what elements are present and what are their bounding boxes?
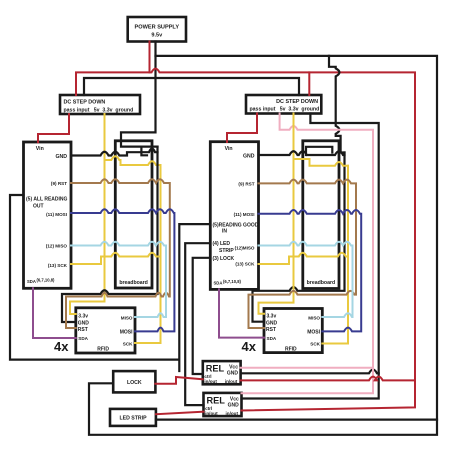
svg-text:MOSI: MOSI xyxy=(120,330,133,336)
led strip xyxy=(110,409,156,426)
rfid RFID1 xyxy=(76,308,135,353)
svg-text:4x: 4x xyxy=(54,339,69,354)
svg-text:SCK: SCK xyxy=(310,342,320,347)
svg-text:GND: GND xyxy=(78,320,90,326)
svg-text:breadboard: breadboard xyxy=(307,280,336,286)
wire: black feed to DC step-down inputs (top rail) xyxy=(84,78,299,95)
svg-text:(12)MISO: (12)MISO xyxy=(235,245,255,250)
svg-text:RST: RST xyxy=(78,327,88,333)
relay REL2 xyxy=(204,393,242,416)
wire: yellow column right of breadboard 1 to RFID 1 SCK xyxy=(135,165,161,343)
wire: jumper step inside breadboard 1 top xyxy=(141,147,147,156)
wire: arduino 2 pin 4 LED STRIP to relay 2 ctrl xyxy=(185,243,210,405)
wire: arduino 2 RST brown to RFID 2 RST xyxy=(249,180,357,328)
svg-text:MISO: MISO xyxy=(121,315,133,320)
wire: jumper step inside breadboard 2 top xyxy=(306,147,332,155)
svg-text:4x: 4x xyxy=(242,339,257,354)
svg-text:in/out: in/out xyxy=(204,379,217,384)
svg-text:DC STEP DOWN: DC STEP DOWN xyxy=(64,100,106,106)
arduino A2 xyxy=(210,142,258,290)
breadboard BB2 xyxy=(303,141,339,289)
svg-text:DC STEP DOWN: DC STEP DOWN xyxy=(276,99,318,105)
breadboard BB1 xyxy=(115,141,152,288)
svg-text:(4) LED: (4) LED xyxy=(213,241,231,247)
svg-text:GND: GND xyxy=(55,154,67,160)
dc step down U1 xyxy=(60,95,140,114)
svg-text:MISO: MISO xyxy=(308,315,320,320)
svg-text:LOCK: LOCK xyxy=(127,380,142,386)
wire: yellow 3.3v branch across breadboard 1 xyxy=(105,156,161,165)
svg-text:(13) SCK: (13) SCK xyxy=(48,263,68,268)
svg-text:(6,7,10,8): (6,7,10,8) xyxy=(37,278,56,283)
wire: black branch from top bus down to breadboard 2 ground column xyxy=(329,56,345,153)
wire: yellow 3.3v DC2 down to RFID 2 3.3v xyxy=(259,114,294,314)
relay REL1 xyxy=(203,361,241,384)
wire: DC step-down 2 5v to arduino 2 Vin xyxy=(227,114,257,143)
wire: relay 1 GND to ground column xyxy=(241,370,379,374)
wire: arduino 2 GND across breadboard 2 xyxy=(259,151,345,155)
wire: power supply red lead xyxy=(149,42,151,73)
svg-text:GND: GND xyxy=(243,154,255,160)
svg-text:GND: GND xyxy=(266,320,278,326)
svg-text:3.3v: 3.3v xyxy=(78,313,88,319)
wire: yellow 3.3v DC1 down to RFID 1 3.3v xyxy=(70,114,105,314)
svg-text:(13) SCK: (13) SCK xyxy=(235,262,255,267)
svg-text:SDA: SDA xyxy=(214,280,223,285)
wire: arduino 2 MISO light blue to RFID 2 MISO xyxy=(259,242,353,317)
svg-text:(11) MOSI: (11) MOSI xyxy=(234,212,255,217)
svg-text:(12) MISO: (12) MISO xyxy=(46,244,68,249)
wire: arduino 2 pin 3 LOCK to relay 1 ctrl xyxy=(193,258,211,374)
wire: arduino 2 SCK yellow into breadboard column xyxy=(259,253,349,264)
wire: arduino 2 SDA purple to RFID 2 SDA xyxy=(219,289,264,337)
wire: relay 1 Vcc pink branch xyxy=(241,367,373,369)
wire: arduino 1 SDA purple to RFID 1 SDA xyxy=(33,288,76,338)
wire: arduino 1 pin 5 ALL READING OUT to arduino 2 READING GOOD IN xyxy=(10,195,210,371)
wire: ground bus from power supply right side to bottom xyxy=(89,56,437,435)
wire: yellow column right of breadboard 2 to RFID 2 SCK xyxy=(322,166,348,344)
wire: led strip red to relay 2 in/out xyxy=(156,412,204,415)
svg-text:in/out: in/out xyxy=(205,411,218,416)
svg-text:pass input 5v 3.3v ground: pass input 5v 3.3v ground xyxy=(64,108,134,114)
wire: power supply black lead down to breadboard 1 jumper xyxy=(121,42,158,147)
wire: arduino 1 GND across breadboard 1 xyxy=(71,148,158,155)
svg-text:(9) RST: (9) RST xyxy=(238,181,254,186)
svg-text:RFID: RFID xyxy=(285,346,297,352)
wire: red branch down to DC step-down 2 input xyxy=(308,72,310,95)
svg-text:RFID: RFID xyxy=(97,346,109,352)
wire: led strip black ground return xyxy=(156,419,437,421)
svg-text:IN: IN xyxy=(222,228,227,234)
svg-text:SDA: SDA xyxy=(78,336,88,341)
wire: arduino 1 MISO light blue to RFID 1 MISO xyxy=(71,242,166,317)
svg-text:9.5v: 9.5v xyxy=(151,33,163,39)
svg-text:STRIP: STRIP xyxy=(219,248,234,254)
svg-text:pass input 5v 3.3v ground: pass input 5v 3.3v ground xyxy=(250,107,320,113)
wire: pink 5v from DC step-down 2 to relay Vcc pins xyxy=(242,114,374,394)
svg-text:(5)READING GOOD: (5)READING GOOD xyxy=(213,222,259,228)
svg-text:(3) LOCK: (3) LOCK xyxy=(213,256,235,262)
svg-text:SCK: SCK xyxy=(123,342,133,347)
wire: lock red to relay 1 in/out xyxy=(155,377,202,384)
wire: ground column right of breadboard 2 to RFID 2 GND xyxy=(253,153,345,322)
wire: arduino 1 MOSI navy to RFID 1 MOSI xyxy=(71,209,174,331)
svg-text:in/out: in/out xyxy=(225,379,238,384)
svg-text:(5) ALL READING: (5) ALL READING xyxy=(26,197,68,203)
svg-text:GND: GND xyxy=(228,403,240,409)
svg-text:Vin: Vin xyxy=(225,146,233,152)
svg-text:SDA: SDA xyxy=(27,279,36,284)
wire: yellow 3.3v branch across breadboard 2 xyxy=(294,159,349,166)
power supply PSU 9.5v xyxy=(128,17,186,42)
svg-text:in/out: in/out xyxy=(226,411,239,416)
wire: arduino 1 SCK yellow into breadboard column xyxy=(71,253,161,264)
wire: DC step-down 2 ground output to relay GND column xyxy=(242,114,379,399)
wire: breadboard 1 ground column down to RFID 1 GND xyxy=(62,147,158,322)
dc step down U2 xyxy=(246,95,321,114)
wire: arduino 2 MOSI navy to RFID 2 MOSI xyxy=(259,210,362,331)
svg-text:LED STRIP: LED STRIP xyxy=(119,416,147,422)
arduino A1 xyxy=(24,142,72,288)
svg-text:OUT: OUT xyxy=(33,204,44,210)
svg-text:REL: REL xyxy=(206,364,225,374)
svg-text:3.3v: 3.3v xyxy=(267,313,277,319)
lock LOCK xyxy=(113,371,155,392)
wire: red 9.5v bus xyxy=(76,69,415,411)
svg-text:breadboard: breadboard xyxy=(119,280,148,286)
svg-text:(11) MOSI: (11) MOSI xyxy=(46,212,67,217)
wire: arduino 1 RST brown to RFID 1 RST xyxy=(66,179,170,328)
wire: relay 1 in/out red to 9.5v return xyxy=(241,377,415,381)
svg-text:(9) RST: (9) RST xyxy=(51,181,67,186)
svg-text:Vin: Vin xyxy=(36,146,44,152)
svg-text:SDA: SDA xyxy=(267,336,277,341)
svg-text:RST: RST xyxy=(266,327,276,333)
svg-text:(6,7,10,8): (6,7,10,8) xyxy=(223,279,242,284)
svg-text:MOSI: MOSI xyxy=(307,330,320,336)
svg-text:GND: GND xyxy=(227,371,239,377)
svg-text:REL: REL xyxy=(207,395,226,405)
wire: DC step-down 1 5v to arduino 1 Vin xyxy=(38,114,69,142)
svg-text:POWER SUPPLY: POWER SUPPLY xyxy=(135,25,180,31)
rfid RFID2 xyxy=(264,309,322,353)
